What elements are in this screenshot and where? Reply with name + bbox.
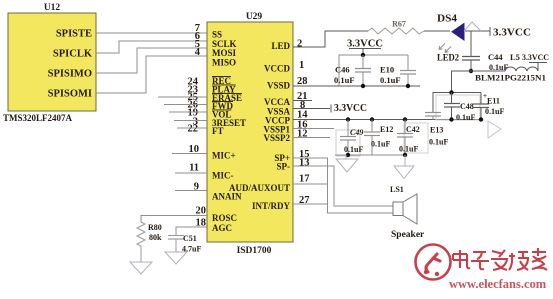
node dot C46 bottom xyxy=(361,84,365,88)
svg-text:MISO: MISO xyxy=(212,58,236,68)
svg-text:MOSI: MOSI xyxy=(212,48,237,58)
cap row bottom rail xyxy=(335,154,405,156)
svg-text:11: 11 xyxy=(189,163,199,174)
svg-text:0.1uF: 0.1uF xyxy=(399,145,418,154)
svg-text:E10: E10 xyxy=(380,65,394,75)
svg-text:FT: FT xyxy=(212,126,224,136)
ground below C49 xyxy=(336,155,358,172)
svg-text:1: 1 xyxy=(299,60,304,71)
svg-text:17: 17 xyxy=(299,174,310,185)
svg-text:3.3VCC: 3.3VCC xyxy=(334,103,367,114)
node dot C42 bottom xyxy=(403,153,407,157)
selection box artifact around C48 xyxy=(436,95,480,120)
wire AUD pin17 stub xyxy=(293,183,328,185)
ground below R80 xyxy=(130,262,152,274)
svg-text:SPISOMI: SPISOMI xyxy=(48,89,92,100)
svg-text:MIC-: MIC- xyxy=(212,171,234,181)
watermark logo circle xyxy=(416,245,451,280)
wire SPICLK to SCLK xyxy=(96,41,207,53)
IC U29 body ISD1700 xyxy=(207,12,293,256)
wire INT/RDY pin27 stub xyxy=(293,203,328,205)
wire VSSP2 pin12 stub xyxy=(293,137,330,139)
node dot C49 bottom xyxy=(346,153,350,157)
svg-text:0.1uF: 0.1uF xyxy=(371,140,390,149)
svg-text:INT/RDY: INT/RDY xyxy=(252,201,291,211)
ground right of E11 xyxy=(488,121,501,138)
svg-text:LED: LED xyxy=(271,41,290,51)
svg-text:0.1uF: 0.1uF xyxy=(456,113,475,122)
svg-text:2: 2 xyxy=(297,39,302,50)
selection box artifact around C42 xyxy=(404,123,428,153)
svg-text:3.3VCC: 3.3VCC xyxy=(522,52,549,62)
svg-text:22: 22 xyxy=(188,124,199,135)
svg-text:SPISTE: SPISTE xyxy=(56,29,92,40)
svg-text:28: 28 xyxy=(297,76,308,87)
wire SP- pin13 to speaker xyxy=(293,166,393,206)
power port 3.3VCC top right xyxy=(490,27,531,39)
U29 right pin numbers xyxy=(297,39,310,207)
power port 3.3VCC above C46 xyxy=(347,39,383,56)
svg-text:SP-: SP- xyxy=(277,162,291,172)
ground below C42 xyxy=(394,155,414,179)
wire R67 to LED DS4 xyxy=(424,30,450,32)
svg-text:BLM21PG2215N1: BLM21PG2215N1 xyxy=(475,73,546,83)
svg-text:VSSD: VSSD xyxy=(267,81,291,91)
svg-text:E11: E11 xyxy=(487,97,500,106)
svg-text:C51: C51 xyxy=(183,234,197,243)
svg-text:0.1uF: 0.1uF xyxy=(380,75,401,85)
inductor L5 ferrite bead xyxy=(471,52,547,83)
svg-text:L5: L5 xyxy=(510,52,520,62)
wire rail to E13 C48 E11 xyxy=(433,93,481,113)
svg-text:C44: C44 xyxy=(488,52,503,62)
LED DS4 xyxy=(437,14,464,63)
capacitor C44 branch xyxy=(462,31,508,72)
svg-text:C48: C48 xyxy=(460,102,474,111)
wire LED to 3.3VCC port xyxy=(465,30,490,32)
svg-text:C46: C46 xyxy=(335,65,350,75)
svg-text:4: 4 xyxy=(195,47,201,58)
U29 left pin stub wires xyxy=(158,97,207,191)
U29 right pin labels xyxy=(229,41,291,211)
capacitor C48 xyxy=(444,90,475,122)
ground below C51 xyxy=(165,252,187,264)
wire hop xyxy=(464,22,481,31)
svg-text:3.3VCC: 3.3VCC xyxy=(493,28,531,39)
wire VSSA pin8 to 3.3VCC port xyxy=(293,103,367,114)
wire L5 rail down to C48 rail xyxy=(452,71,472,93)
capacitor C42 xyxy=(397,117,420,155)
svg-text:VSSP2: VSSP2 xyxy=(263,133,290,143)
svg-text:0.1uF: 0.1uF xyxy=(344,145,363,154)
resistor R80 xyxy=(137,222,162,262)
svg-text:20: 20 xyxy=(196,206,207,217)
svg-text:TMS320LF2407A: TMS320LF2407A xyxy=(3,113,73,123)
svg-text:R80: R80 xyxy=(148,223,162,232)
svg-text:SPISIMO: SPISIMO xyxy=(48,69,92,80)
svg-text:Speaker: Speaker xyxy=(391,230,425,240)
wire VSSP1 pin16 stub xyxy=(293,128,334,130)
wire VCC rail over C46 E10 xyxy=(339,55,408,86)
svg-text:AUD/AUXOUT: AUD/AUXOUT xyxy=(229,183,290,193)
wire VCCP pin14 rail xyxy=(293,119,481,121)
svg-text:3.3VCC: 3.3VCC xyxy=(347,39,383,50)
svg-text:VCCD: VCCD xyxy=(264,64,290,74)
svg-text:SPICLK: SPICLK xyxy=(53,49,93,60)
svg-text:VCCA: VCCA xyxy=(264,97,290,107)
wire AGC pin18 to C51 xyxy=(176,227,207,235)
svg-text:0.1uF: 0.1uF xyxy=(334,75,355,85)
wire LED pin2 to R67 xyxy=(293,31,368,47)
wire SPISIMO to MOSI xyxy=(96,48,207,73)
svg-text:E13: E13 xyxy=(430,126,443,135)
speaker LS1 xyxy=(390,185,425,240)
svg-text:80k: 80k xyxy=(149,233,162,242)
svg-text:E12: E12 xyxy=(380,125,393,134)
svg-text:U29: U29 xyxy=(246,12,263,22)
svg-text:LS1: LS1 xyxy=(390,185,404,194)
capacitor E12 xyxy=(364,117,393,155)
wire SPISTE to SS xyxy=(96,32,207,34)
svg-text:SS: SS xyxy=(212,30,222,40)
svg-text:0.1uF: 0.1uF xyxy=(429,138,448,147)
U29 left pin numbers xyxy=(188,23,207,229)
wire VCCA pin21 stub xyxy=(293,100,312,102)
U29 left pin labels xyxy=(212,30,246,234)
capacitor C49 xyxy=(340,117,363,155)
capacitor C51 xyxy=(168,234,201,254)
svg-text:C42: C42 xyxy=(406,125,420,134)
svg-text:DS4: DS4 xyxy=(437,14,457,25)
watermark text 电子发烧友 xyxy=(453,248,547,270)
node junction dot C44 bottom xyxy=(469,69,473,73)
capacitor C46 xyxy=(334,55,371,86)
capacitor E11 xyxy=(473,92,504,122)
IC U12 body xyxy=(3,3,96,123)
resistor R67 xyxy=(368,20,424,35)
wire VSSD pin28 ground rail xyxy=(293,85,420,87)
svg-text:ROSC: ROSC xyxy=(212,213,237,223)
svg-text:LED2: LED2 xyxy=(437,53,459,63)
svg-text:R67: R67 xyxy=(392,20,406,29)
capacitor E10 xyxy=(380,55,416,86)
svg-text:ANAIN: ANAIN xyxy=(212,192,242,202)
svg-text:C49: C49 xyxy=(350,128,363,137)
capacitor E13 xyxy=(425,113,448,147)
svg-text:MIC+: MIC+ xyxy=(212,151,236,161)
svg-text:AGC: AGC xyxy=(212,223,232,233)
wire SP+ pin15 to speaker xyxy=(293,158,393,213)
selection box artifact around C49 xyxy=(336,130,360,156)
svg-text:0.1uF: 0.1uF xyxy=(485,107,504,116)
svg-text:U12: U12 xyxy=(44,3,61,13)
svg-text:13: 13 xyxy=(299,158,310,169)
wire SPISOMI to MISO xyxy=(96,56,207,93)
wire ROSC pin20 to R80 xyxy=(141,216,207,223)
svg-text:www.elecfans.com: www.elecfans.com xyxy=(449,277,547,291)
node dot E10 bottom xyxy=(406,84,410,88)
node dot rail C46 top xyxy=(361,53,365,57)
svg-text:ISD1700: ISD1700 xyxy=(237,246,272,256)
